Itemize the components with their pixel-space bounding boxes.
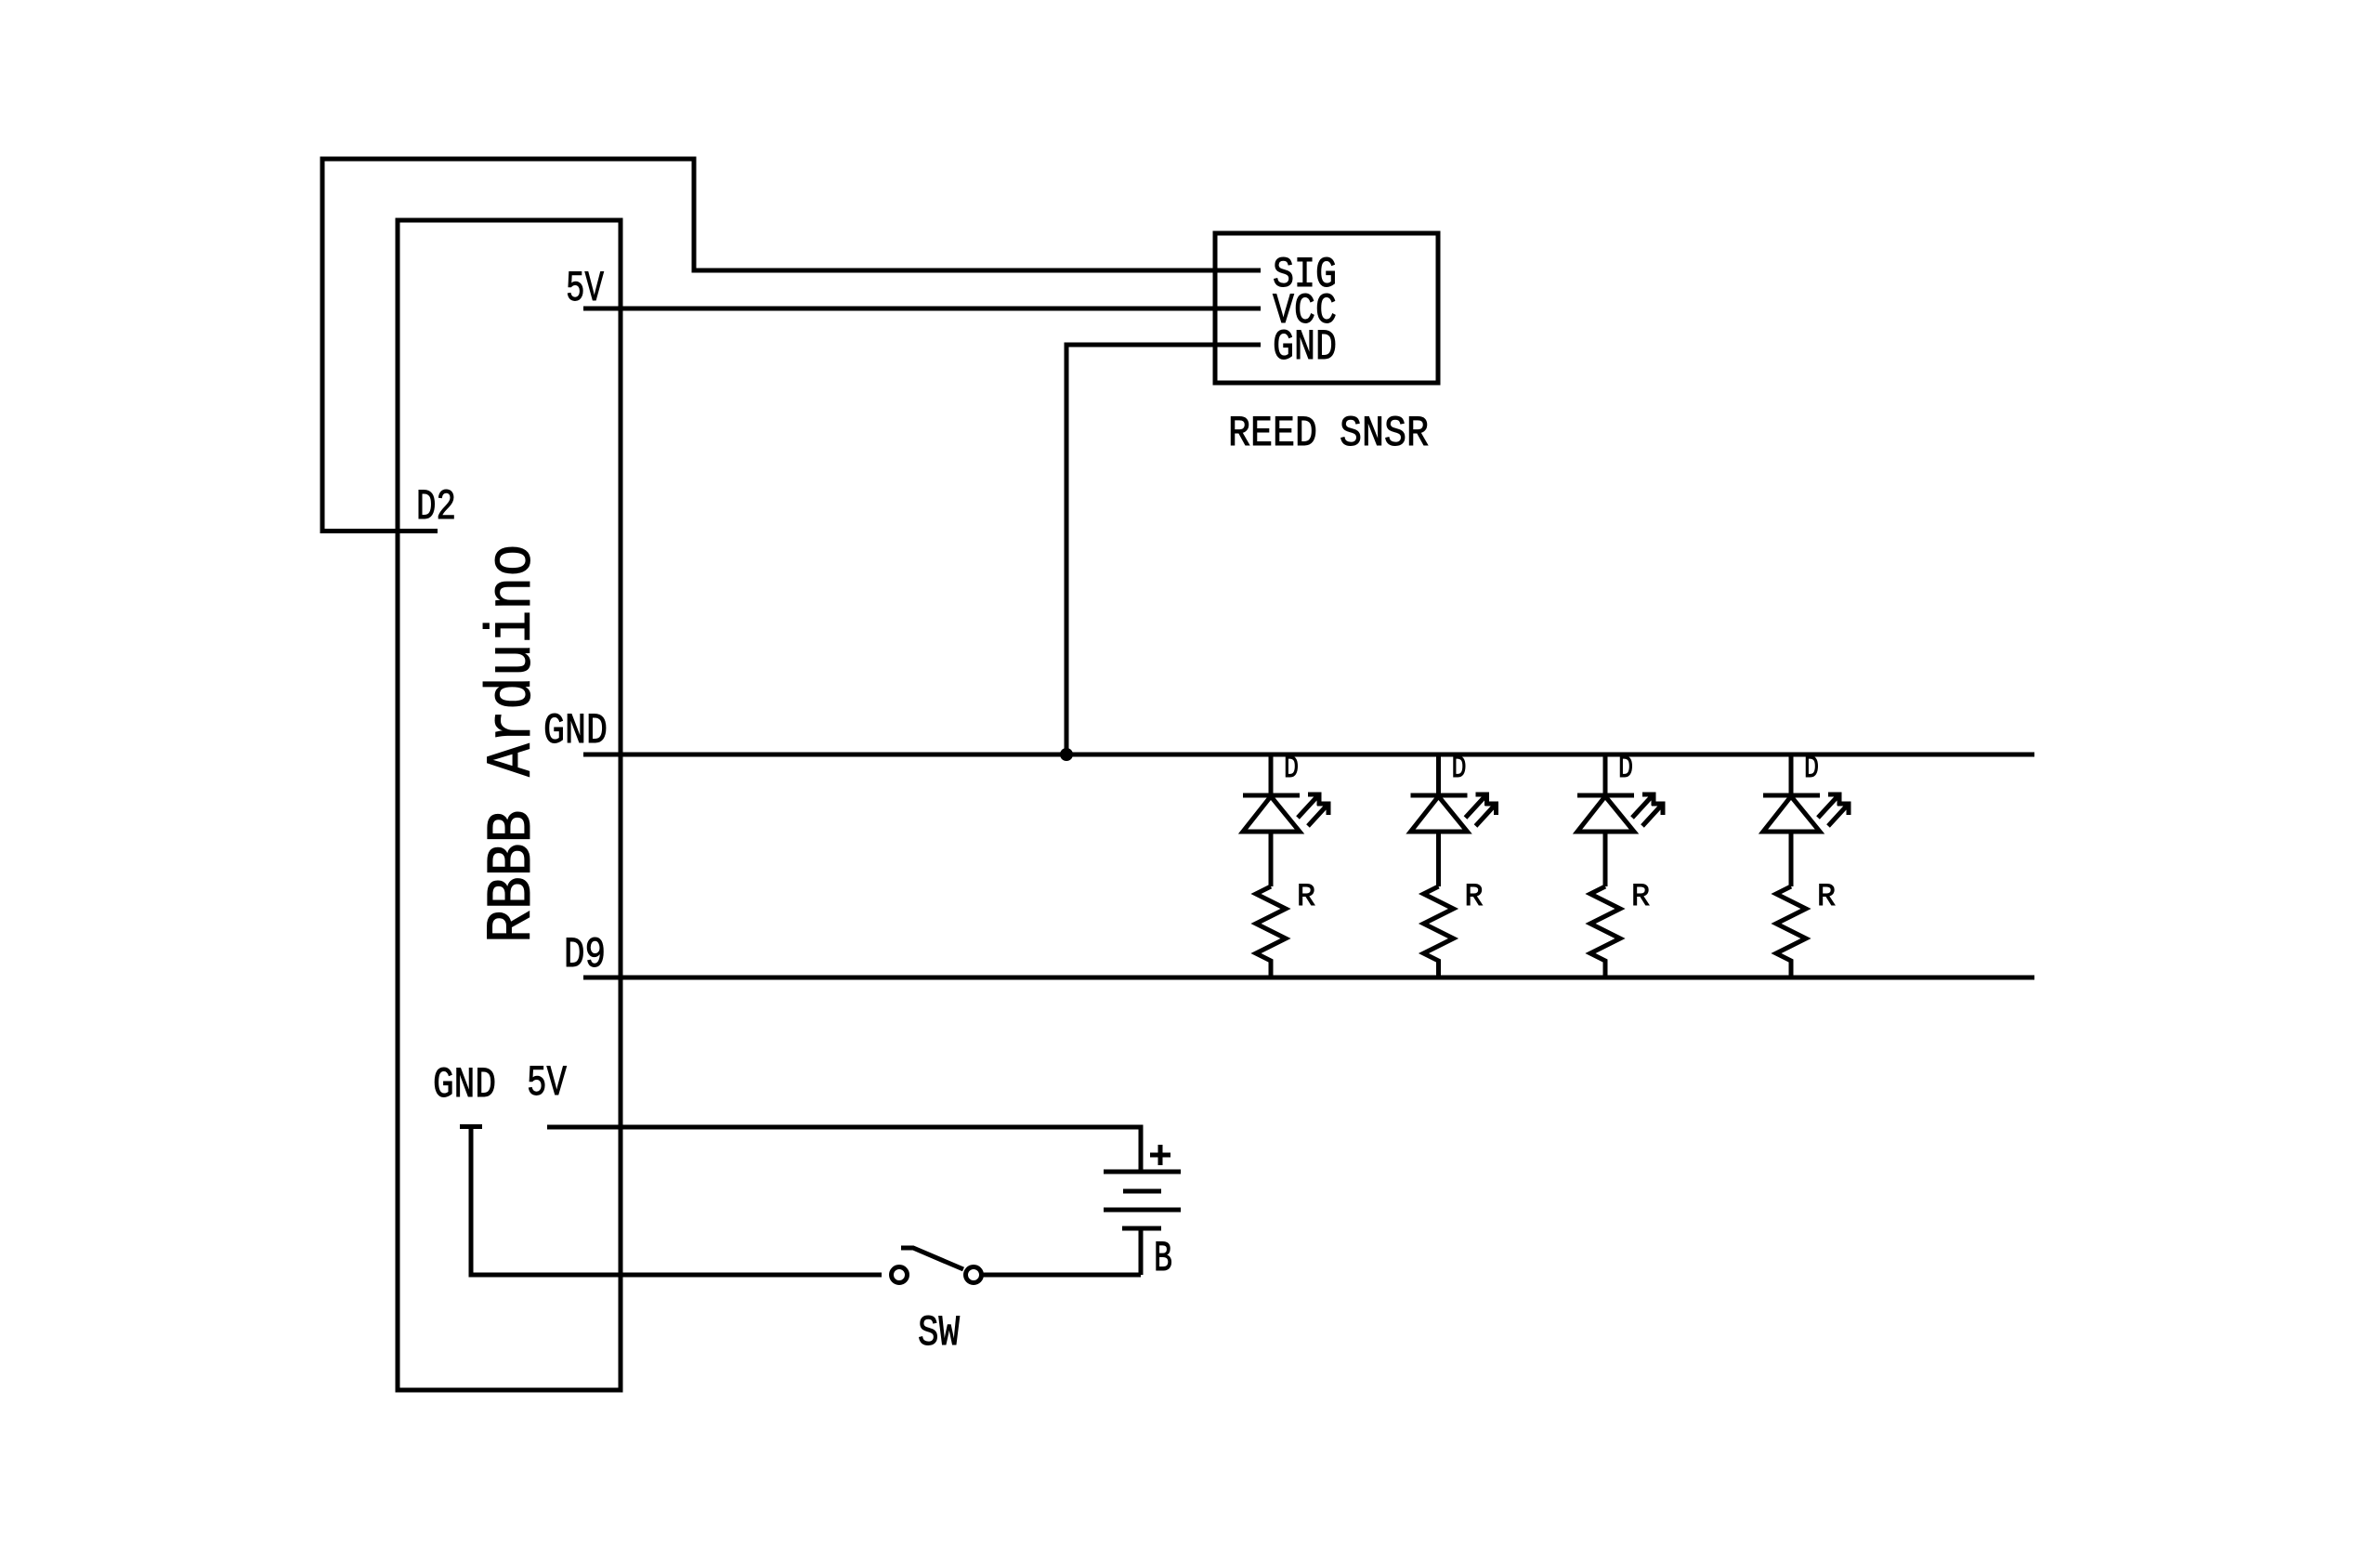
svg-text:REED SNSR: REED SNSR — [1228, 410, 1429, 458]
svg-text:D: D — [1618, 752, 1633, 787]
svg-text:B: B — [1154, 1235, 1172, 1283]
svg-text:D: D — [1804, 752, 1819, 787]
svg-text:SW: SW — [918, 1309, 960, 1358]
svg-text:R: R — [1817, 880, 1836, 915]
svg-text:GND: GND — [543, 707, 608, 755]
svg-text:R: R — [1465, 880, 1484, 915]
svg-text:D9: D9 — [564, 931, 606, 979]
svg-text:5V: 5V — [566, 265, 604, 313]
svg-text:D2: D2 — [416, 483, 456, 531]
svg-text:D: D — [1452, 752, 1467, 787]
svg-text:R: R — [1297, 880, 1315, 915]
svg-text:5V: 5V — [527, 1059, 567, 1108]
svg-text:GND: GND — [433, 1061, 496, 1109]
svg-text:GND: GND — [1273, 323, 1337, 372]
svg-text:RBBB Arduino: RBBB Arduino — [477, 544, 549, 943]
svg-text:D: D — [1284, 752, 1299, 787]
svg-text:R: R — [1631, 880, 1650, 915]
